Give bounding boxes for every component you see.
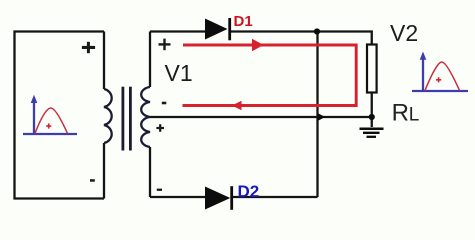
svg-text:V2: V2 — [390, 20, 418, 46]
svg-text:D2: D2 — [238, 182, 260, 201]
svg-text:R: R — [392, 99, 409, 126]
svg-text:D1: D1 — [234, 13, 253, 30]
svg-text:V1: V1 — [165, 60, 193, 86]
svg-text:L: L — [409, 104, 420, 125]
